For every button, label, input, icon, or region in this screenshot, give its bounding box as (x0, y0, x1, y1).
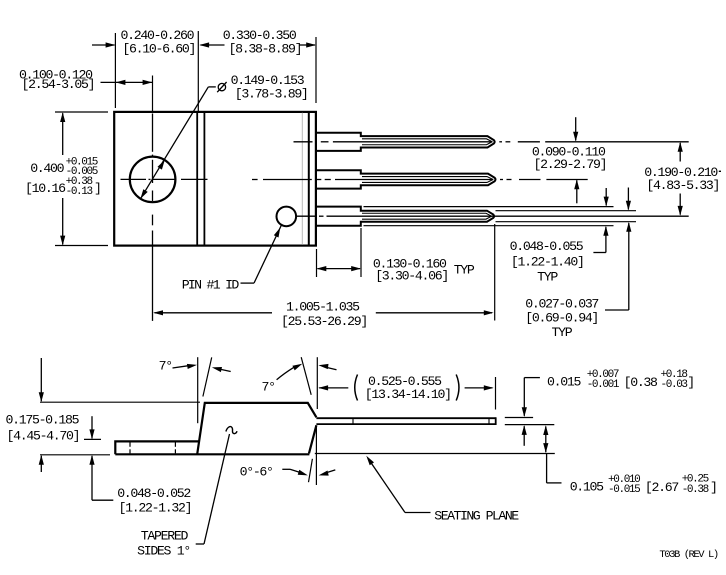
dim 0.090-0.110 arrows (575, 117, 577, 140)
svg-text:]: ] (687, 375, 694, 390)
dim 0.015 leader (524, 377, 540, 379)
svg-text:0.015: 0.015 (547, 374, 581, 389)
svg-text:[13.34-14.10]: [13.34-14.10] (365, 387, 451, 402)
package body (front view) (114, 112, 316, 246)
svg-text:PIN #1 ID: PIN #1 ID (182, 278, 240, 293)
svg-text:[10.16: [10.16 (25, 181, 66, 196)
svg-text:[3.30-4.06]: [3.30-4.06] (375, 269, 448, 284)
svg-text:0.175-0.185: 0.175-0.185 (6, 413, 80, 428)
svg-text:TYP: TYP (454, 263, 475, 278)
svg-text:[6.10-6.60]: [6.10-6.60] (122, 42, 195, 57)
svg-text:0.048-0.055: 0.048-0.055 (510, 239, 584, 254)
svg-text:]: ] (710, 480, 717, 495)
svg-text:[4.45-4.70]: [4.45-4.70] (7, 428, 80, 443)
svg-text:[25.53-26.29]: [25.53-26.29] (281, 314, 367, 329)
lead thickness extension lines (505, 417, 533, 419)
dim 0.027-0.037 arrows (627, 188, 629, 210)
svg-text:-0.38: -0.38 (682, 484, 709, 496)
hole horizontal centerline (121, 178, 147, 180)
seating plane line (315, 453, 555, 455)
7 deg callout (right) (301, 357, 311, 395)
lead 2 (316, 170, 496, 188)
dim (0.525-0.555) (319, 387, 348, 389)
side view outline (115, 403, 316, 454)
svg-text:1.005-1.035: 1.005-1.035 (286, 300, 360, 315)
svg-text:[2.29-2.79]: [2.29-2.79] (534, 157, 607, 172)
svg-text:0.105: 0.105 (570, 479, 604, 494)
svg-text:0.048-0.052: 0.048-0.052 (117, 486, 190, 501)
dim 0.105 (545, 427, 547, 453)
0-6 deg callout (309, 459, 313, 482)
extension lines above body (114, 33, 116, 108)
svg-text:T03B (REV L): T03B (REV L) (659, 549, 717, 561)
svg-text:[0.69-0.94]: [0.69-0.94] (525, 311, 598, 326)
svg-text:-0.001: -0.001 (587, 379, 620, 391)
dim 0.400 (55, 111, 108, 113)
dim 0.048-0.052 (84, 438, 101, 440)
pin 1 id leader (241, 282, 255, 284)
lead 1 (316, 133, 495, 151)
svg-text:[1.22-1.32]: [1.22-1.32] (119, 501, 192, 516)
svg-text:0.400: 0.400 (30, 161, 64, 176)
lead 3 width extension lines (364, 206, 614, 208)
dim 0.190-0.210 arrows (679, 143, 681, 162)
mounting hole (130, 157, 176, 203)
svg-text:-0.13: -0.13 (66, 186, 93, 198)
svg-text:SEATING PLANE: SEATING PLANE (434, 509, 519, 524)
hole diameter leader (140, 87, 208, 199)
pin 1 id circle (277, 207, 297, 227)
body inner vertical lines (196, 112, 198, 246)
7 deg callout (left) (197, 357, 199, 423)
svg-text:[3.78-3.89]: [3.78-3.89] (235, 86, 308, 101)
hole vertical centerline (152, 76, 154, 113)
lead 1 centerline (294, 141, 313, 143)
dim 0.240-0.260 / 0.330-0.350 arrows (92, 44, 115, 46)
hidden hole lines (tab) (129, 442, 131, 447)
dim 0.175-0.185 (40, 401, 200, 403)
svg-text:TYP: TYP (552, 325, 573, 340)
svg-text:TAPERED: TAPERED (141, 529, 189, 544)
dim 0.048-0.055 arrows (605, 188, 607, 206)
seating plane leader (368, 459, 405, 513)
svg-text:SIDES 1°: SIDES 1° (137, 543, 190, 558)
tapered sides leader + squiggle (196, 543, 204, 545)
lead (side view) (316, 417, 495, 419)
svg-text:0°-6°: 0°-6° (240, 465, 273, 480)
lead 2 centerline (252, 179, 258, 181)
svg-text:-0.015: -0.015 (608, 484, 640, 496)
svg-text:[8.38-8.89]: [8.38-8.89] (229, 42, 302, 57)
svg-text:[2.67: [2.67 (645, 480, 678, 495)
svg-text:TYP: TYP (537, 269, 558, 284)
dim 0.100-0.120 (101, 81, 153, 83)
svg-text:7°: 7° (262, 380, 275, 395)
svg-text:7°: 7° (159, 359, 172, 374)
dim 1.005-1.035 (155, 312, 273, 314)
svg-text:[2.54-3.05]: [2.54-3.05] (22, 77, 95, 92)
svg-text:[4.83-5.33]: [4.83-5.33] (646, 178, 719, 193)
lead 3 (316, 207, 494, 226)
lead 3 centerline (296, 215, 317, 217)
svg-text:[1.22-1.40]: [1.22-1.40] (511, 255, 584, 270)
svg-text:0.027-0.037: 0.027-0.037 (525, 296, 598, 311)
svg-text:[0.38: [0.38 (624, 375, 658, 390)
svg-text:-0.03: -0.03 (661, 379, 688, 391)
dim 0.130-0.160 (316, 249, 318, 277)
svg-text:]: ] (94, 181, 101, 196)
